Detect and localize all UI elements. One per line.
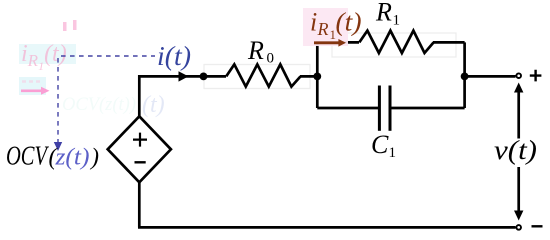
RC loop right vertical [463, 42, 466, 108]
faint gray box around R1 [332, 33, 456, 57]
wire node C to terminal [465, 75, 516, 78]
node dot A [200, 73, 208, 81]
ghost pink marks above [63, 22, 67, 31]
RC loop top wire right [433, 41, 465, 44]
capacitor branch wire right [390, 107, 465, 110]
pink arrow [21, 90, 42, 93]
node dot C (right) [461, 73, 469, 81]
capacitor C1 plates [378, 86, 381, 131]
svg-text:(t): (t) [336, 8, 362, 37]
faint gray box around R0 [204, 65, 310, 89]
node dot B [313, 73, 321, 81]
minus sign right [532, 225, 543, 227]
svg-text:1: 1 [393, 13, 401, 29]
svg-text:i(t): i(t) [157, 41, 191, 71]
svg-text:(t): (t) [142, 92, 165, 118]
svg-text:R: R [375, 0, 392, 27]
svg-text:1: 1 [389, 145, 397, 161]
svg-text:R: R [247, 36, 264, 65]
terminal circle top [516, 73, 521, 78]
brown current arrow [314, 41, 339, 44]
svg-text:z(t): z(t) [54, 145, 89, 171]
plus inside source [133, 133, 147, 147]
svg-text:OCV(z(t)): OCV(z(t)) [62, 94, 136, 115]
svg-text:R: R [317, 19, 329, 39]
wire source bottom vertical [138, 182, 141, 227]
wire node A to R0 [204, 75, 227, 78]
resistor R1 zigzag [359, 31, 433, 53]
ghost pink scribble [22, 80, 40, 83]
svg-text:i: i [310, 8, 317, 37]
svg-text:): ) [89, 145, 99, 171]
plus sign right [530, 70, 542, 82]
v(t) measurement arrow lower segment [517, 167, 520, 213]
minus inside source [135, 161, 146, 163]
v(t) measurement arrow upper segment [517, 90, 520, 139]
resistor R0 zigzag [226, 64, 300, 86]
bottom wire [138, 226, 516, 229]
ghost cyan band at arrow [19, 77, 46, 95]
terminal circle bottom [516, 225, 521, 230]
RC loop left vertical [316, 42, 319, 108]
wire R0 to node B [300, 75, 317, 78]
dashed annotation line vertical with arrow [57, 58, 59, 144]
pink highlight behind iR1 label [303, 8, 348, 46]
dependent source diamond [108, 116, 171, 182]
svg-text:v(t): v(t) [494, 135, 537, 165]
capacitor branch wire left [317, 107, 379, 110]
current direction arrowhead [179, 71, 189, 81]
svg-text:0: 0 [267, 51, 275, 67]
ghost highlight cyan box top-left [19, 44, 76, 64]
svg-text:OCV: OCV [6, 141, 50, 171]
dashed annotation line horizontal [61, 55, 155, 57]
RC loop top wire left [316, 41, 359, 44]
wire: source top vertical and main top wire to first node [139, 76, 203, 116]
svg-text:C: C [371, 130, 389, 159]
